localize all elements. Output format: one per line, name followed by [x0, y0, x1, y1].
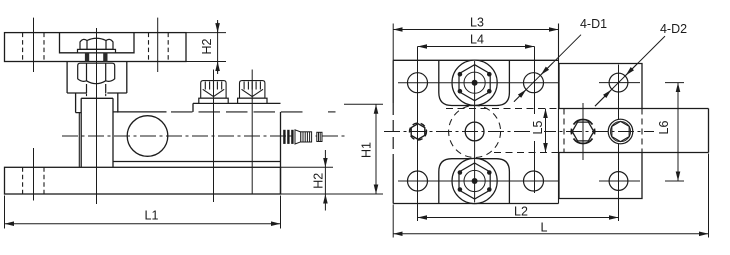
dimension H1: extension line [344, 103, 383, 105]
bottom plate [5, 167, 281, 194]
cable gland barrel [301, 132, 312, 142]
upper foot plate [559, 64, 642, 109]
bolt shank through plate (threaded, dark) [85, 53, 89, 62]
top plate [5, 33, 187, 62]
svg-text:H1: H1 [359, 142, 373, 158]
bolt Q2 axis [251, 70, 253, 195]
hole D1 top-right [524, 73, 544, 93]
dimension H2 top: line and arrows [217, 20, 219, 74]
dimension H1 line [375, 104, 377, 194]
vertical centerline right holes / L4 ext [534, 47, 536, 194]
dimension H2 bottom: extension [281, 166, 333, 168]
svg-text:L3: L3 [470, 16, 484, 30]
block B [76, 93, 118, 113]
washer bolt Q2 [238, 98, 267, 103]
cable gland ribs [283, 130, 293, 144]
body top edge hidden [171, 111, 303, 113]
center hole circle [465, 122, 484, 141]
dimension L [393, 154, 708, 238]
svg-text:L: L [541, 221, 548, 235]
hidden shank dashes [87, 94, 106, 99]
hidden hole lines top plate right [149, 33, 169, 62]
stem C (load button) [81, 98, 113, 167]
bar: visible edges [559, 109, 709, 153]
hole D1 bottom-left [408, 171, 428, 191]
bolt Q2 on pad [240, 81, 265, 99]
svg-text:L1: L1 [145, 209, 159, 223]
cable gland taper [295, 130, 301, 144]
stem collar line [78, 113, 80, 168]
svg-text:H2: H2 [200, 38, 214, 54]
L5 label background [531, 114, 544, 141]
svg-text:4-D1: 4-D1 [580, 17, 607, 31]
centerline bottom plate hole [33, 148, 35, 201]
svg-text:L2: L2 [514, 205, 528, 219]
leader 4-D2 [595, 36, 665, 106]
hidden base edge under bar right [641, 109, 643, 153]
lower foot plate [559, 153, 642, 199]
hole D1 top-left [408, 73, 428, 93]
washer bolt Q1 [199, 98, 228, 103]
main bolt axis [96, 28, 98, 204]
centerline left hole [33, 18, 35, 72]
top plate left edge [392, 60, 394, 203]
bolt Q1 axis [213, 70, 215, 203]
block A under plate [67, 62, 127, 94]
svg-text:4-D2: 4-D2 [660, 22, 687, 36]
dimension L3 [392, 24, 394, 61]
dimension L2 [418, 217, 619, 219]
hidden hole lines bottom plate [23, 167, 44, 194]
hole D1 bottom-right [524, 171, 544, 191]
washer under nut [78, 49, 116, 52]
svg-text:L6: L6 [657, 121, 671, 135]
bolt shank below head [87, 84, 106, 93]
lower boss [439, 159, 510, 204]
dimension L4 [418, 46, 535, 48]
plate bottom extension (H1/H2) [281, 193, 384, 195]
bolt B1 top view [452, 60, 497, 105]
dimension L1 line [5, 223, 281, 225]
svg-text:L4: L4 [470, 33, 484, 47]
D2 vertical centerline + L2 ext [618, 65, 620, 222]
body circle hole [127, 116, 168, 157]
svg-text:H2: H2 [311, 173, 325, 189]
hole D2 top [609, 73, 628, 92]
left hidden hex feature [410, 123, 427, 140]
nut feature on bar [608, 119, 633, 144]
dimension L1: extensions [5, 196, 281, 229]
centerline right hole [157, 18, 159, 72]
body horizontal centerline [62, 135, 345, 137]
body bottom edge [113, 161, 281, 163]
bolt Q1 on pad [201, 81, 226, 99]
crosshair horizontals D1 [398, 83, 558, 181]
body top edge visible [113, 111, 167, 113]
body pad top [193, 103, 281, 112]
hex nut M1 [80, 38, 113, 49]
hidden bolt feature on bar [571, 119, 595, 143]
D2 crosshair horizontals [599, 83, 640, 181]
top plate right edge + L3 extension [558, 24, 560, 204]
nut pocket in top plate [60, 33, 135, 53]
dimension L6 [665, 83, 684, 181]
svg-text:L5: L5 [531, 121, 545, 135]
hidden hole lines top plate left [23, 33, 44, 62]
upper boss [439, 60, 510, 105]
hidden base edge under bar left [563, 109, 565, 153]
dashed pocket circle [449, 106, 501, 158]
leader 4-D1 [514, 35, 581, 102]
main horizontal centerline [384, 131, 654, 133]
bar: hidden edges under plate [446, 108, 559, 110]
dimension H2 top: extension lines [186, 33, 226, 62]
vertical centerline left holes + L2 ext [417, 47, 419, 222]
top plate: top and bottom edges [393, 60, 558, 203]
bolt head in block A [78, 63, 115, 83]
L5 dimension line [545, 109, 547, 153]
body right face [280, 112, 282, 194]
bolt B2 top view [452, 158, 497, 203]
hole D2 bottom [609, 172, 628, 191]
vertical centerline bolts column [474, 61, 476, 203]
dimension H2 bottom: line and arrows [324, 150, 326, 167]
cable gland end piece [317, 132, 322, 141]
